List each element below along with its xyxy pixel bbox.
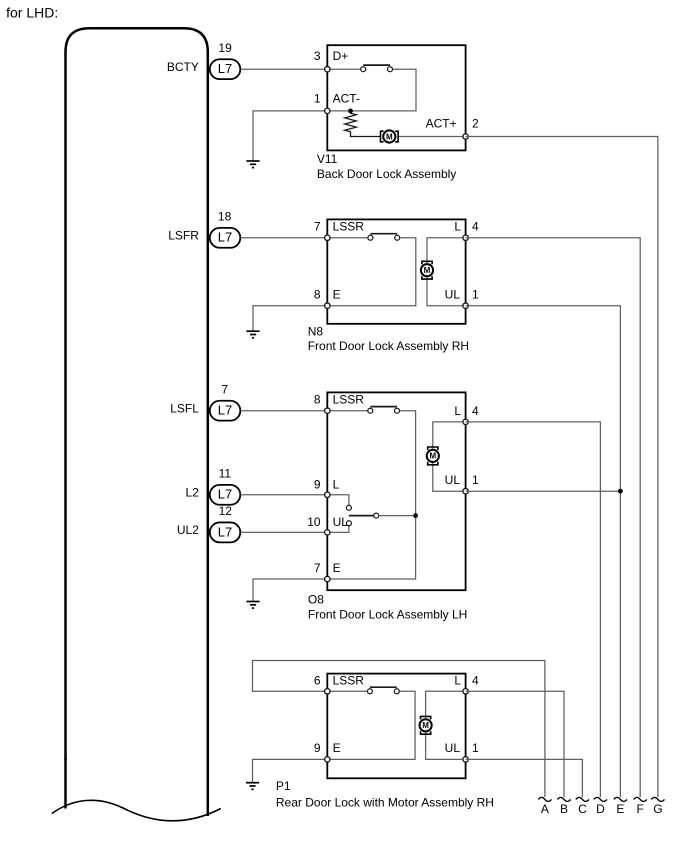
junction node on ACT- line	[348, 109, 353, 114]
wire BCTY from connector L7 to V11 pin 3	[240, 68, 327, 70]
svg-text:E: E	[616, 802, 624, 816]
svg-text:V11: V11	[317, 152, 338, 166]
svg-text:1: 1	[472, 287, 479, 301]
svg-text:ACT+: ACT+	[426, 116, 457, 130]
connector L7 pin 19 node BCTY	[167, 41, 240, 79]
wire O8 pin 7 to ground	[253, 579, 327, 601]
wire N8 pin 8 to ground	[253, 306, 327, 331]
wire E: N8 pin 1 UL to node E	[466, 306, 621, 797]
svg-text:M: M	[429, 452, 436, 461]
svg-text:3: 3	[314, 49, 321, 63]
svg-text:N8: N8	[308, 324, 324, 338]
wire inside O8: switch output down to E	[327, 411, 415, 579]
svg-text:2: 2	[472, 116, 479, 130]
svg-text:UL: UL	[445, 287, 461, 301]
pin 8 of N8	[325, 303, 330, 308]
motor M inside P1 (vertical)	[420, 716, 432, 734]
connector L7 pin 12 node UL2	[177, 504, 240, 542]
wire O8 pin 9 to key switch L contact	[327, 495, 349, 505]
wire harness (instrument panel wire) outline	[66, 28, 208, 816]
svg-text:UL2: UL2	[177, 523, 199, 537]
svg-text:P1: P1	[276, 779, 291, 793]
pin 10 of O8	[325, 530, 330, 535]
wire inside P1: pin 6 to lock position switch	[327, 690, 367, 692]
svg-text:E: E	[333, 287, 341, 301]
component box P1	[327, 674, 465, 779]
rear door lock with motor assembly RH P1	[276, 674, 494, 810]
svg-text:7: 7	[314, 561, 321, 575]
pin 7 of O8	[325, 576, 330, 581]
svg-text:1: 1	[472, 741, 479, 755]
svg-text:4: 4	[472, 674, 479, 688]
motor M inside V11 (horizontal)	[381, 130, 399, 142]
svg-text:BCTY: BCTY	[167, 60, 199, 74]
svg-text:UL: UL	[445, 473, 461, 487]
svg-text:Front Door Lock Assembly RH: Front Door Lock Assembly RH	[308, 339, 469, 353]
pin 9 of P1	[325, 757, 330, 762]
svg-text:L7: L7	[218, 230, 232, 245]
wire G: V11 pin 2 ACT+ to node G	[466, 137, 658, 798]
pin 1 of O8	[463, 489, 468, 494]
svg-text:9: 9	[314, 477, 321, 491]
wire inside N8: switch to E, drop and return	[327, 238, 416, 306]
wire O8 pin 1 UL to junction on wire E	[466, 490, 621, 492]
front door lock assembly RH N8	[308, 219, 479, 353]
wire harness torn bottom wave	[52, 800, 221, 820]
pin 7 of N8	[325, 235, 330, 240]
component box V11	[327, 45, 465, 150]
ground symbol at N8 pin 8	[246, 331, 259, 338]
resistor inside V11	[345, 111, 381, 137]
pin 2 of V11	[463, 134, 468, 139]
svg-text:UL: UL	[445, 741, 461, 755]
motor M inside N8 (vertical)	[421, 261, 433, 279]
svg-text:L7: L7	[218, 524, 232, 539]
svg-text:ACT-: ACT-	[333, 92, 360, 106]
pin 8 of O8	[325, 408, 330, 413]
svg-text:8: 8	[314, 392, 321, 406]
svg-text:L7: L7	[218, 487, 232, 502]
svg-text:6: 6	[314, 674, 321, 688]
wire L2 from connector L7 to O8 pin 9	[240, 494, 327, 496]
wire D: O8 pin 4 L to node D	[466, 422, 601, 797]
connector L7 pin 11 node L2	[186, 467, 241, 505]
key lock switch O8 (L contact, UL contact, common)	[346, 505, 378, 526]
lock position switch P1 (contacts and blade)	[367, 687, 399, 694]
svg-text:LSSR: LSSR	[333, 392, 365, 406]
pin 3 of V11	[325, 67, 330, 72]
svg-text:19: 19	[218, 41, 232, 55]
wire inside N8: pin 4 to motor to pin 1	[427, 238, 466, 306]
svg-text:L2: L2	[186, 485, 200, 499]
node F continuation mark and label	[634, 797, 647, 816]
svg-text:18: 18	[218, 210, 232, 224]
svg-text:M: M	[386, 132, 393, 141]
wire B: P1 pin 4 L to node B	[466, 691, 564, 797]
pin 6 of P1	[325, 689, 330, 694]
svg-text:L: L	[454, 674, 461, 688]
svg-text:4: 4	[472, 220, 479, 234]
svg-text:B: B	[560, 802, 568, 816]
node B continuation mark and label	[557, 797, 570, 816]
junction on E line	[413, 513, 418, 518]
svg-text:LSSR: LSSR	[333, 674, 365, 688]
connector L7 pin 18 node LSFR	[168, 210, 240, 248]
front door lock assembly LH O8	[307, 392, 479, 621]
wire inside N8: pin 7 to lock position switch	[327, 237, 368, 239]
pin 4 of N8	[463, 235, 468, 240]
svg-text:M: M	[422, 721, 429, 730]
wire key switch common to E line	[379, 515, 416, 517]
motor M inside O8 (vertical)	[427, 447, 439, 465]
svg-text:4: 4	[472, 404, 479, 418]
wire motor to pin 2	[398, 136, 466, 138]
wire inside O8: pin 8 to lock position switch	[327, 410, 368, 412]
wire inside P1: switch to E, drop and return	[327, 691, 415, 759]
wire inside O8: pin 4 to motor to pin 1	[433, 422, 466, 491]
node C continuation mark and label	[576, 797, 589, 816]
connector L7 pin 7 node LSFL	[170, 383, 240, 421]
component box O8	[327, 392, 465, 590]
svg-text:UL: UL	[333, 515, 349, 529]
wire UL2 from connector L7 to O8 pin 10	[240, 531, 327, 533]
svg-text:8: 8	[314, 287, 321, 301]
node E continuation mark and label	[614, 797, 627, 816]
pin 1 of N8	[463, 303, 468, 308]
wire F: N8 pin 4 L to node F	[466, 238, 641, 797]
pin 9 of O8	[325, 492, 330, 497]
svg-text:12: 12	[219, 504, 233, 518]
wire V11 pin 1 to ground	[253, 111, 327, 160]
lock position switch N8 (contacts and blade)	[368, 234, 400, 241]
svg-text:D+: D+	[333, 49, 349, 63]
pin 4 of O8	[463, 419, 468, 424]
ground symbol at P1 pin 9	[246, 783, 259, 790]
svg-text:LSFR: LSFR	[168, 228, 199, 242]
svg-text:O8: O8	[308, 593, 324, 607]
svg-text:F: F	[637, 802, 644, 816]
svg-text:E: E	[333, 561, 341, 575]
svg-text:for LHD:: for LHD:	[6, 5, 58, 21]
lock position switch O8 (contacts and blade)	[368, 407, 400, 414]
svg-text:Front Door Lock Assembly LH: Front Door Lock Assembly LH	[308, 607, 467, 621]
svg-text:Back Door Lock Assembly: Back Door Lock Assembly	[317, 167, 456, 181]
pin 1 of V11	[325, 108, 330, 113]
wire C: P1 pin 1 UL to node C	[466, 759, 583, 797]
wire inside V11: switch to ACT- return, vertical drop	[327, 69, 416, 111]
ground symbol at V11 pin 1	[246, 161, 259, 168]
back door lock assembly V11	[314, 45, 479, 181]
svg-text:A: A	[541, 802, 549, 816]
svg-text:9: 9	[314, 741, 321, 755]
component box N8	[327, 219, 465, 323]
ground symbol at O8 pin 7	[246, 602, 259, 609]
pin 4 of P1	[463, 689, 468, 694]
wire O8 pin 10 to key switch UL contact	[327, 526, 349, 533]
node G continuation mark and label	[651, 797, 664, 816]
wire P1 pin 9 to ground	[253, 759, 328, 782]
svg-text:G: G	[653, 802, 662, 816]
wire LSFL from connector L7 to O8 pin 8	[240, 410, 327, 412]
svg-text:L7: L7	[218, 61, 232, 76]
wire inside P1: pin 4 to motor to pin 1	[426, 691, 466, 759]
wire P1 pin 6 up-left to node A	[253, 661, 545, 798]
svg-text:11: 11	[219, 467, 232, 481]
svg-text:L: L	[454, 220, 461, 234]
wire LSFR from connector L7 to N8 pin 7	[240, 237, 327, 239]
pin 1 of P1	[463, 757, 468, 762]
node A continuation mark and label	[538, 797, 551, 816]
svg-text:C: C	[578, 802, 587, 816]
node D continuation mark and label	[594, 797, 607, 816]
svg-text:1: 1	[314, 92, 321, 106]
svg-text:L: L	[454, 404, 461, 418]
lock position switch V11 (contacts and blade)	[361, 65, 393, 72]
svg-text:7: 7	[221, 383, 228, 397]
svg-text:E: E	[333, 741, 341, 755]
svg-text:D: D	[596, 802, 605, 816]
svg-text:Rear Door Lock with Motor Asse: Rear Door Lock with Motor Assembly RH	[276, 796, 494, 810]
svg-text:LSSR: LSSR	[333, 220, 365, 234]
svg-text:10: 10	[307, 515, 321, 529]
svg-text:M: M	[424, 266, 431, 275]
svg-text:L7: L7	[218, 403, 232, 418]
svg-text:L: L	[333, 477, 340, 491]
junction of O8 pin 1 with wire E	[618, 489, 623, 494]
svg-text:LSFL: LSFL	[170, 401, 199, 415]
wire inside V11: pin 3 to lock position switch	[327, 68, 361, 70]
svg-text:7: 7	[314, 220, 321, 234]
svg-text:1: 1	[472, 473, 479, 487]
